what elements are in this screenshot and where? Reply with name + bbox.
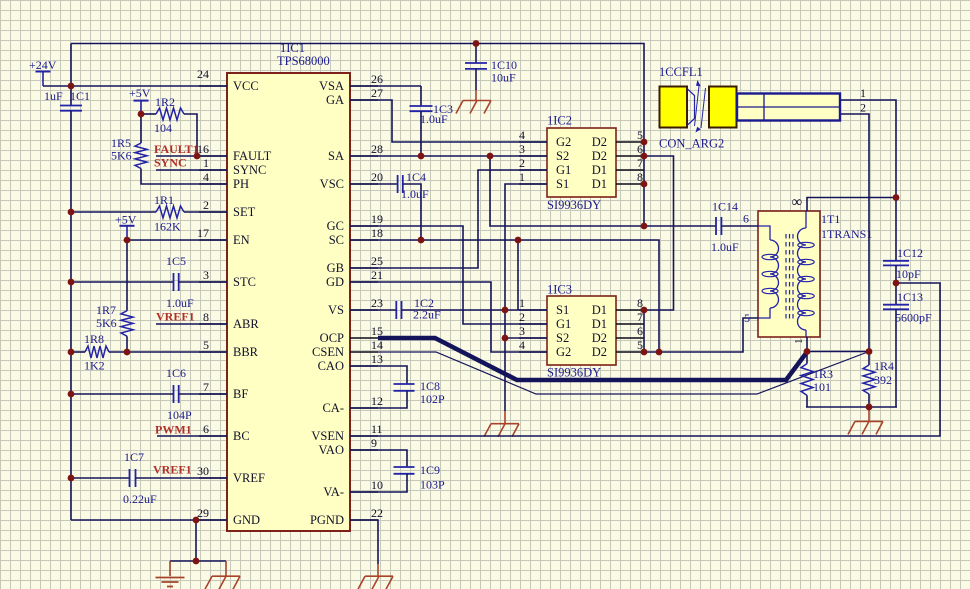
svg-text:BBR: BBR xyxy=(233,345,259,359)
svg-text:SYNC: SYNC xyxy=(154,156,187,170)
svg-text:9: 9 xyxy=(371,436,377,450)
svg-text:6: 6 xyxy=(637,324,643,338)
svg-text:392: 392 xyxy=(874,373,892,387)
svg-text:SC: SC xyxy=(329,233,344,247)
svg-text:24: 24 xyxy=(197,67,209,81)
svg-text:2.2uF: 2.2uF xyxy=(413,308,441,322)
svg-text:VS: VS xyxy=(328,303,344,317)
svg-text:30: 30 xyxy=(197,464,209,478)
svg-text:+5V: +5V xyxy=(129,86,151,100)
svg-text:EN: EN xyxy=(233,233,250,247)
svg-text:12: 12 xyxy=(371,394,383,408)
svg-text:1C6: 1C6 xyxy=(166,366,186,380)
svg-text:1R2: 1R2 xyxy=(155,95,175,109)
svg-text:FAULT1: FAULT1 xyxy=(154,142,199,156)
svg-text:5: 5 xyxy=(203,338,209,352)
svg-text:CSEN: CSEN xyxy=(312,345,344,359)
svg-text:D2: D2 xyxy=(592,135,607,149)
svg-text:7: 7 xyxy=(203,380,209,394)
svg-text:8: 8 xyxy=(203,310,209,324)
svg-text:VA-: VA- xyxy=(323,485,344,499)
svg-text:1C8: 1C8 xyxy=(420,379,440,393)
svg-text:4: 4 xyxy=(519,128,525,142)
svg-text:2: 2 xyxy=(203,198,209,212)
svg-text:VREF: VREF xyxy=(233,471,265,485)
svg-text:VSA: VSA xyxy=(319,79,344,93)
svg-text:STC: STC xyxy=(233,275,256,289)
svg-text:PH: PH xyxy=(233,177,249,191)
svg-text:1R4: 1R4 xyxy=(874,359,894,373)
svg-text:1.0uF: 1.0uF xyxy=(401,187,429,201)
svg-text:D1: D1 xyxy=(592,303,607,317)
svg-text:104: 104 xyxy=(154,121,172,135)
svg-text:1.0uF: 1.0uF xyxy=(711,240,739,254)
svg-text:19: 19 xyxy=(371,212,383,226)
svg-text:VSEN: VSEN xyxy=(311,429,344,443)
svg-text:+5V: +5V xyxy=(115,213,137,227)
svg-text:D1: D1 xyxy=(592,163,607,177)
svg-text:103P: 103P xyxy=(420,478,445,492)
svg-text:1C13: 1C13 xyxy=(897,290,923,304)
svg-text:1CCFL1: 1CCFL1 xyxy=(659,65,703,79)
svg-text:6: 6 xyxy=(203,422,209,436)
svg-text:S2: S2 xyxy=(556,331,569,345)
svg-text:26: 26 xyxy=(371,72,383,86)
svg-text:29: 29 xyxy=(197,506,209,520)
svg-text:23: 23 xyxy=(371,296,383,310)
svg-text:SYNC: SYNC xyxy=(233,163,266,177)
svg-text:27: 27 xyxy=(371,86,383,100)
svg-text:ABR: ABR xyxy=(233,317,259,331)
svg-text:1R7: 1R7 xyxy=(96,303,116,317)
svg-text:1IC3: 1IC3 xyxy=(547,283,572,297)
svg-text:28: 28 xyxy=(371,142,383,156)
svg-text:10: 10 xyxy=(371,478,383,492)
svg-text:5K6: 5K6 xyxy=(111,149,132,163)
svg-text:1R3: 1R3 xyxy=(813,367,833,381)
svg-text:G2: G2 xyxy=(556,135,571,149)
svg-text:1.0uF: 1.0uF xyxy=(420,112,448,126)
svg-text:10uF: 10uF xyxy=(491,71,516,85)
svg-text:13: 13 xyxy=(371,352,383,366)
svg-text:2: 2 xyxy=(519,310,525,324)
svg-text:∞: ∞ xyxy=(792,195,803,211)
svg-text:GC: GC xyxy=(327,219,344,233)
svg-text:VSC: VSC xyxy=(320,177,344,191)
svg-text:1IC2: 1IC2 xyxy=(547,114,572,128)
svg-text:3: 3 xyxy=(203,268,209,282)
svg-text:SA: SA xyxy=(328,149,344,163)
svg-text:4: 4 xyxy=(203,170,209,184)
svg-text:D2: D2 xyxy=(592,345,607,359)
svg-text:1.0uF: 1.0uF xyxy=(166,296,194,310)
svg-text:VCC: VCC xyxy=(233,79,259,93)
svg-text:21: 21 xyxy=(371,268,383,282)
svg-text:1R1: 1R1 xyxy=(154,193,174,207)
svg-text:FAULT: FAULT xyxy=(233,149,272,163)
svg-text:CA-: CA- xyxy=(322,401,344,415)
svg-text:1C4: 1C4 xyxy=(406,170,426,184)
svg-text:BC: BC xyxy=(233,429,250,443)
svg-text:162K: 162K xyxy=(154,220,181,234)
svg-text:18: 18 xyxy=(371,226,383,240)
svg-text:1: 1 xyxy=(519,170,525,184)
svg-text:G2: G2 xyxy=(556,345,571,359)
svg-text:GA: GA xyxy=(326,93,344,107)
svg-text:VREF1: VREF1 xyxy=(156,310,195,324)
svg-text:D2: D2 xyxy=(592,149,607,163)
svg-text:2: 2 xyxy=(860,101,866,115)
svg-text:1C12: 1C12 xyxy=(897,246,923,260)
svg-text:6: 6 xyxy=(743,212,749,226)
svg-text:BF: BF xyxy=(233,387,248,401)
svg-text:1C14: 1C14 xyxy=(712,200,738,214)
svg-text:CON_ARG2: CON_ARG2 xyxy=(659,137,724,151)
svg-text:S2: S2 xyxy=(556,149,569,163)
svg-text:SI9936DY: SI9936DY xyxy=(547,366,601,380)
svg-text:11: 11 xyxy=(371,422,383,436)
svg-text:5K6: 5K6 xyxy=(96,316,117,330)
svg-text:+24V: +24V xyxy=(29,58,57,72)
svg-text:1T1: 1T1 xyxy=(821,212,840,226)
svg-text:1K2: 1K2 xyxy=(84,359,105,373)
svg-text:VAO: VAO xyxy=(319,443,344,457)
svg-text:104P: 104P xyxy=(167,408,192,422)
svg-text:1R8: 1R8 xyxy=(84,332,104,346)
svg-text:PGND: PGND xyxy=(310,513,344,527)
svg-text:TPS68000: TPS68000 xyxy=(277,54,330,68)
svg-text:101: 101 xyxy=(813,380,831,394)
svg-text:OCP: OCP xyxy=(320,331,344,345)
svg-text:1C7: 1C7 xyxy=(124,450,144,464)
svg-text:VREF1: VREF1 xyxy=(153,463,192,477)
svg-text:1uF: 1uF xyxy=(44,89,63,103)
svg-text:PWM1: PWM1 xyxy=(155,423,192,437)
svg-text:CAO: CAO xyxy=(318,359,344,373)
svg-text:SI9936DY: SI9936DY xyxy=(547,198,601,212)
svg-text:D1: D1 xyxy=(592,317,607,331)
svg-text:5: 5 xyxy=(744,311,750,325)
svg-text:1C5: 1C5 xyxy=(166,254,186,268)
svg-text:S1: S1 xyxy=(556,303,569,317)
svg-text:2: 2 xyxy=(519,156,525,170)
svg-text:GD: GD xyxy=(326,275,344,289)
svg-text:3: 3 xyxy=(519,142,525,156)
svg-text:4: 4 xyxy=(519,338,525,352)
svg-text:1: 1 xyxy=(793,339,805,345)
svg-text:G1: G1 xyxy=(556,317,571,331)
svg-text:3: 3 xyxy=(519,324,525,338)
svg-text:20: 20 xyxy=(371,170,383,184)
svg-text:0.22uF: 0.22uF xyxy=(123,492,157,506)
svg-text:G1: G1 xyxy=(556,163,571,177)
svg-text:17: 17 xyxy=(197,226,209,240)
svg-text:1TRANS1: 1TRANS1 xyxy=(821,227,872,241)
svg-text:25: 25 xyxy=(371,254,383,268)
svg-text:D2: D2 xyxy=(592,331,607,345)
svg-text:GB: GB xyxy=(327,261,344,275)
svg-text:D1: D1 xyxy=(592,177,607,191)
svg-text:1: 1 xyxy=(519,296,525,310)
svg-text:22: 22 xyxy=(371,506,383,520)
svg-text:5600pF: 5600pF xyxy=(895,311,932,325)
svg-text:1: 1 xyxy=(860,86,866,100)
svg-text:1C9: 1C9 xyxy=(420,463,440,477)
svg-text:102P: 102P xyxy=(420,392,445,406)
svg-text:1C1: 1C1 xyxy=(70,89,90,103)
svg-text:1: 1 xyxy=(203,156,209,170)
svg-text:S1: S1 xyxy=(556,177,569,191)
svg-text:SET: SET xyxy=(233,205,256,219)
svg-text:GND: GND xyxy=(233,513,260,527)
svg-text:10pF: 10pF xyxy=(896,267,921,281)
